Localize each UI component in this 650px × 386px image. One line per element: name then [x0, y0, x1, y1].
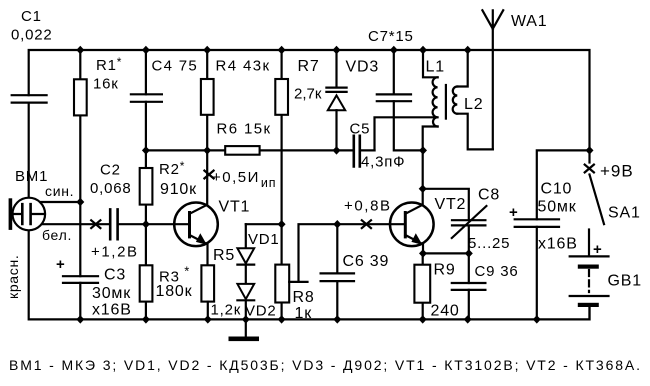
- svg-text:R5: R5: [213, 247, 235, 264]
- svg-text:+9В: +9В: [600, 162, 634, 181]
- wire mic white to C2: [43, 223, 110, 225]
- svg-text:C7*15: C7*15: [368, 28, 414, 45]
- svg-text:50мк: 50мк: [538, 199, 577, 216]
- svg-text:C4 75: C4 75: [152, 58, 199, 75]
- svg-text:R4 43к: R4 43к: [216, 58, 271, 75]
- node dot rail R4: [203, 46, 211, 54]
- svg-text:GB1: GB1: [608, 272, 642, 289]
- svg-text:C8: C8: [478, 186, 500, 203]
- capacitor C6 39: [336, 224, 338, 319]
- capacitor C10 50mk: [537, 150, 590, 319]
- svg-text:х16В: х16В: [538, 236, 578, 253]
- svg-text:VD3: VD3: [346, 59, 380, 76]
- svg-text:С3: С3: [104, 267, 126, 284]
- node dot VD3 C5: [333, 146, 341, 154]
- inductor L1: [423, 50, 438, 77]
- wire R8 to VT2 base jog: [289, 224, 404, 282]
- svg-text:16к: 16к: [93, 76, 119, 93]
- antenna WA1: [482, 10, 503, 149]
- transistor VT1 KT3102V: [174, 203, 218, 247]
- test point X +0,8V: [362, 220, 371, 228]
- wire top +9V rail: [29, 50, 590, 150]
- node dot R4 collector R6: [203, 146, 211, 154]
- svg-text:+0,8В: +0,8В: [344, 198, 392, 215]
- svg-text:910к: 910к: [160, 181, 197, 198]
- svg-text:C10: C10: [541, 180, 573, 197]
- node dot rail L2: [464, 46, 472, 54]
- node dot C8 C9: [465, 249, 473, 257]
- svg-text:х16В: х16В: [92, 301, 132, 318]
- svg-text:син.: син.: [45, 183, 74, 199]
- svg-text:C2: C2: [100, 162, 121, 179]
- node dot grail R9: [419, 315, 427, 323]
- node dot grail R8: [278, 315, 286, 323]
- svg-text:ВМ1: ВМ1: [15, 168, 48, 185]
- core L1 L2: [445, 85, 447, 119]
- varicap VD3 D902: [335, 50, 337, 86]
- svg-text:1,2к: 1,2к: [211, 302, 242, 319]
- wire bottom ground rail: [29, 230, 590, 319]
- capacitor C9 36: [468, 253, 470, 319]
- resistor R4 43k: [206, 50, 208, 150]
- svg-text:R9: R9: [434, 262, 456, 279]
- svg-text:4,3пФ: 4,3пФ: [361, 154, 405, 171]
- test point X +0,5Uip: [204, 171, 213, 179]
- node dot base VT1 / R2 R3: [142, 220, 150, 228]
- resistor R3 180k: [145, 224, 147, 319]
- svg-text:5...25: 5...25: [468, 235, 510, 252]
- svg-text:VD1: VD1: [248, 231, 280, 248]
- svg-text:R6 15к: R6 15к: [217, 121, 272, 138]
- wire mic blue to R1: [40, 201, 80, 203]
- inductor L2: [457, 50, 467, 87]
- resistor R1 16k: [79, 50, 81, 202]
- node dot grail C9: [464, 315, 472, 323]
- node dot collector C8 branch: [419, 185, 427, 193]
- svg-text:красн.: красн.: [5, 254, 21, 299]
- node dot C4 R2 coupling: [142, 146, 150, 154]
- node dot bias VD1 R7 R8: [278, 220, 286, 228]
- node dot emitter VT2: [419, 249, 427, 257]
- svg-text:C9 36: C9 36: [475, 263, 519, 280]
- node dot grail C3: [76, 315, 84, 323]
- test point X +9V: [588, 150, 590, 162]
- resistor R6 15k: [225, 146, 259, 155]
- svg-text:SA1: SA1: [608, 204, 641, 221]
- svg-text:VD2: VD2: [245, 303, 277, 320]
- node dot rail C7: [390, 46, 398, 54]
- capacitor C2 0,068: [110, 209, 117, 239]
- svg-text:C6 39: C6 39: [343, 253, 390, 270]
- node dot grail R3: [142, 315, 150, 323]
- test point X +1,2V: [91, 220, 100, 228]
- capacitor C5 4,3pF: [337, 149, 375, 151]
- svg-text:C1: C1: [21, 8, 42, 25]
- svg-text:R8: R8: [293, 289, 315, 306]
- diode VD1: [246, 223, 282, 225]
- wire collector to C8: [423, 189, 469, 219]
- capacitor C1: [12, 95, 47, 102]
- node dot battery rail: [586, 146, 594, 154]
- svg-text:VT2: VT2: [435, 196, 467, 213]
- resistor R7 2,7k: [281, 50, 283, 224]
- node dot grail C10: [533, 315, 541, 323]
- capacitor C4 75: [145, 50, 147, 150]
- wire C5 to L1 tap: [375, 117, 438, 150]
- svg-text:L1: L1: [426, 58, 445, 75]
- transistor VT2 KT368A: [390, 203, 434, 247]
- node dot rail R1: [76, 46, 84, 54]
- capacitor C8 variable 5...25: [452, 220, 485, 225]
- node dot rail L1: [419, 46, 427, 54]
- svg-text:1к: 1к: [295, 305, 313, 322]
- node dot tank collector: [419, 146, 427, 154]
- resistor R2 910k: [145, 150, 147, 224]
- wire collector row y150: [146, 149, 337, 151]
- svg-text:240: 240: [431, 303, 460, 320]
- svg-text:C5: C5: [350, 121, 371, 138]
- switch SA1: [590, 175, 605, 225]
- microphone BM1: [13, 198, 46, 231]
- svg-text:0,022: 0,022: [11, 27, 53, 44]
- svg-text:30мк: 30мк: [92, 285, 131, 302]
- svg-text:ВМ1 - МКЭ 3; VD1, VD2 - КД: ВМ1 - МКЭ 3; VD1, VD2 - КД503Б; VD3 - Д9…: [9, 357, 640, 373]
- node dot grail C6: [333, 315, 341, 323]
- resistor R8 1k: [281, 224, 283, 319]
- svg-text:бел.: бел.: [42, 227, 72, 243]
- svg-text:+: +: [56, 256, 66, 273]
- resistor R5 1,2k: [201, 265, 214, 301]
- node dot rail VD3: [333, 46, 341, 54]
- node dot grail R5: [204, 315, 212, 323]
- svg-text:+1,2В: +1,2В: [91, 244, 139, 261]
- node dot grail VD2: [242, 315, 250, 323]
- svg-text:180к: 180к: [156, 283, 193, 300]
- node dot rail R7: [278, 46, 286, 54]
- svg-text:+: +: [509, 204, 519, 221]
- node dot rail C4: [142, 46, 150, 54]
- svg-text:VT1: VT1: [219, 199, 251, 216]
- ground: [245, 319, 247, 337]
- svg-text:2,7к: 2,7к: [294, 86, 322, 103]
- svg-text:R7: R7: [298, 58, 320, 75]
- wire emitter row: [423, 252, 469, 254]
- svg-text:WA1: WA1: [511, 13, 547, 30]
- svg-text:0,068: 0,068: [90, 180, 132, 197]
- capacitor C7 15 trimmer: [394, 50, 423, 150]
- capacitor C3 30mk polarized: [79, 202, 81, 319]
- node dot mic R1 C3: [76, 198, 84, 206]
- resistor R9 240: [422, 253, 424, 319]
- node dot C6 base: [333, 220, 341, 228]
- diode VD2: [237, 284, 254, 299]
- svg-text:L2: L2: [464, 96, 483, 113]
